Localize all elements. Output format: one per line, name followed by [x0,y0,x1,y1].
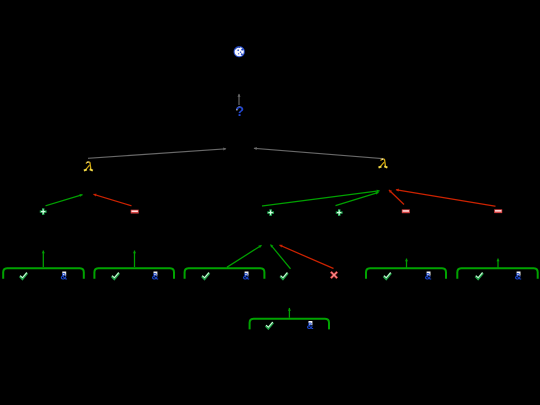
svg-text:?: ? [236,104,244,119]
